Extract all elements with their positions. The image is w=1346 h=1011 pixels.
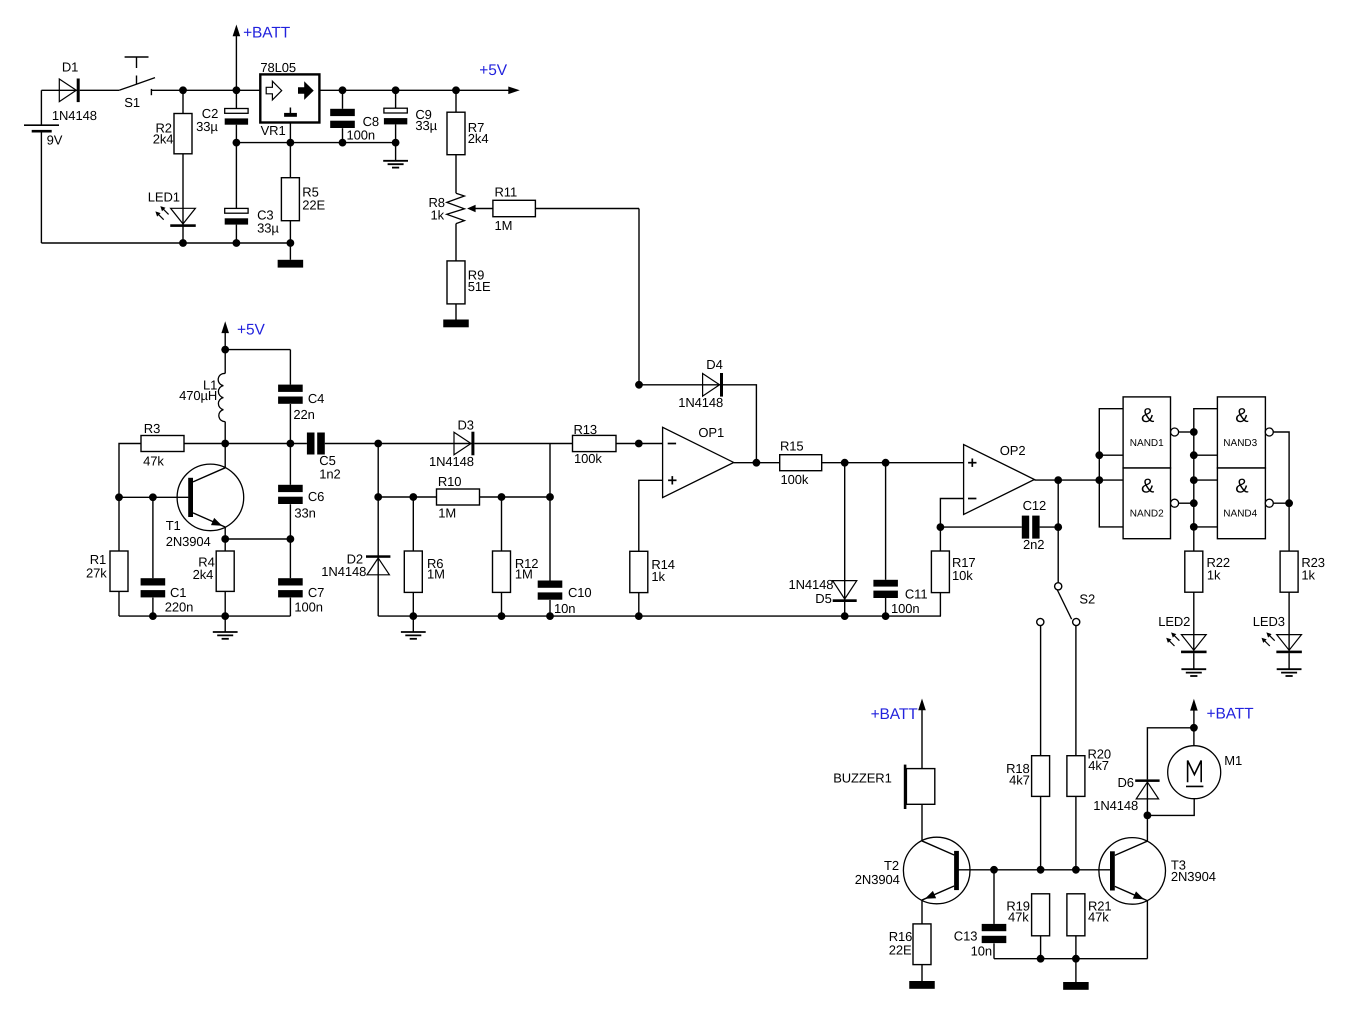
svg-text:R11: R11 — [495, 185, 518, 200]
svg-text:C12: C12 — [1023, 498, 1047, 513]
wire VR1 ground pin — [289, 123, 291, 143]
wire R14 to rail — [638, 593, 640, 617]
svg-text:D3: D3 — [458, 418, 474, 433]
svg-text:C4: C4 — [308, 391, 324, 406]
svg-text:47k: 47k — [1088, 910, 1109, 925]
wire NAND34 input column — [1194, 409, 1218, 551]
node junction C4-C6 — [287, 440, 295, 448]
node junction T1 emitter — [221, 535, 229, 543]
wire R20 to base row — [1075, 796, 1077, 869]
node junction C6-C7 — [287, 535, 295, 543]
svg-text:47k: 47k — [1008, 910, 1029, 925]
NAND gate NAND3 — [1217, 397, 1273, 468]
wire battery positive to D1 anode — [41, 89, 77, 91]
resistor R5 22E — [281, 178, 325, 221]
switch S2 — [1037, 583, 1095, 626]
svg-text:10n: 10n — [971, 943, 992, 958]
node junction R6-rail — [409, 612, 417, 620]
node junction R14-rail — [635, 612, 643, 620]
diode D4 — [678, 357, 723, 410]
resistor R20 4k7 — [1067, 747, 1111, 797]
wire R12 to rail — [501, 592, 503, 616]
wire D4 cathode to output — [723, 385, 756, 463]
svg-text:470µH: 470µH — [179, 388, 217, 403]
svg-text:S1: S1 — [124, 95, 140, 110]
wire R5 to ground rail — [289, 221, 291, 260]
node junction C12-S2 — [1054, 523, 1062, 531]
node junction C10 row — [546, 493, 554, 501]
resistor R1 27k — [86, 551, 128, 591]
diode D6 — [1093, 775, 1159, 813]
node junction VR1-gnd — [287, 139, 295, 147]
svg-text:OP2: OP2 — [1000, 443, 1026, 458]
capacitor C7 100n — [278, 578, 324, 614]
node junction C11-rail — [882, 612, 890, 620]
node junction C9 top — [392, 86, 400, 94]
svg-text:+5V: +5V — [479, 62, 507, 79]
svg-text:2N3904: 2N3904 — [855, 872, 900, 887]
wire LED1 cathode to ground rail — [182, 227, 184, 243]
svg-text:C6: C6 — [308, 489, 324, 504]
wire LED3 to earth — [1288, 653, 1290, 669]
svg-text:22n: 22n — [293, 407, 314, 422]
svg-text:4k7: 4k7 — [1088, 758, 1109, 773]
node junction mid-455 — [1190, 451, 1198, 459]
svg-text:78L05: 78L05 — [260, 60, 296, 75]
wire NAND4 output — [1273, 502, 1289, 504]
resistor R15 100k — [780, 439, 822, 487]
wire T1 emitter to row — [224, 527, 226, 539]
node junction D5-rail — [841, 612, 849, 620]
svg-text:1M: 1M — [515, 567, 533, 582]
svg-text:10k: 10k — [952, 568, 973, 583]
inductor L1 470uH — [179, 373, 225, 421]
ground earth under C9 — [383, 161, 408, 168]
svg-text:C13: C13 — [954, 929, 978, 944]
power symbol +BATT motor — [1190, 699, 1254, 746]
node junction +BATT motor — [1190, 724, 1198, 732]
wire R7 top lead — [455, 90, 457, 112]
ground rail bottom left — [41, 242, 290, 244]
wire NAND2 input 1 — [1099, 479, 1123, 481]
wire R11 to OP1 minus node — [535, 209, 639, 385]
svg-text:+5V: +5V — [237, 322, 265, 339]
wire D6 anode lead — [1146, 779, 1148, 815]
power symbol +BATT buzzer — [871, 699, 926, 769]
NAND gate NAND1 — [1123, 397, 1179, 468]
ground bar under R5 — [278, 260, 304, 268]
resistor R13 100k — [573, 422, 617, 466]
battery B1 9V — [24, 90, 63, 243]
wire NAND4 input 2 — [1194, 526, 1218, 528]
svg-text:51E: 51E — [468, 279, 491, 294]
wire R19 to rail — [1040, 936, 1042, 959]
ground earth under R4 — [213, 632, 238, 639]
node junction C10-rail — [546, 612, 554, 620]
wire R16 to ground bar — [921, 965, 923, 981]
wire M1 bottom to D6 node — [1147, 799, 1194, 816]
wire R23 to LED3 — [1288, 592, 1290, 653]
resistor R22 1k — [1185, 551, 1230, 592]
node junction R4-rail — [221, 612, 229, 620]
svg-text:1M: 1M — [427, 567, 445, 582]
wire C11 column — [885, 463, 887, 580]
wire R17 node to C12 — [940, 526, 1021, 528]
wire S2 right contact to R20 — [1075, 626, 1077, 756]
capacitor C2 33u — [196, 106, 248, 134]
ground rail oscillator — [119, 615, 290, 617]
node junction R5-rail — [287, 239, 295, 247]
svg-text:+BATT: +BATT — [243, 24, 291, 41]
ground rail bottom — [994, 958, 1147, 960]
wire L1 to collector node — [224, 422, 226, 444]
wire C1 bottom lead — [152, 598, 154, 617]
node junction mid-503 — [1190, 499, 1198, 507]
svg-text:33n: 33n — [294, 505, 315, 520]
wire rail to earth R6 — [412, 616, 414, 632]
svg-text:M1: M1 — [1224, 753, 1242, 768]
op-amp OP1 — [663, 425, 734, 498]
wire NAND4 input 1 — [1194, 479, 1218, 481]
node junction R12 top — [498, 493, 506, 501]
wire R8 to R9 — [455, 224, 457, 261]
wire C10 column — [549, 444, 551, 581]
wire C8 bottom lead — [342, 128, 344, 142]
svg-text:2N3904: 2N3904 — [1171, 869, 1216, 884]
svg-text:100k: 100k — [574, 451, 602, 466]
diode D3 — [429, 418, 474, 470]
wire C10 bottom lead — [549, 600, 551, 616]
capacitor C11 100n — [873, 580, 927, 616]
svg-text:33µ: 33µ — [415, 118, 437, 133]
svg-text:2N3904: 2N3904 — [166, 534, 211, 549]
buzzer BUZZER1 — [833, 765, 935, 809]
node junction C8 top — [339, 86, 347, 94]
node junction R21-rail — [1072, 955, 1080, 963]
wire C13 top lead — [993, 870, 995, 924]
wire +5V to C4 branch — [225, 349, 290, 351]
svg-text:R3: R3 — [144, 421, 160, 436]
voltage regulator VR1 78L05 — [260, 60, 319, 138]
svg-text:100n: 100n — [347, 128, 376, 143]
node junction D5 top — [841, 459, 849, 467]
node junction D4 anode — [635, 381, 643, 389]
node junction NAND1 in2 — [1095, 451, 1103, 459]
wire R6 top lead — [412, 497, 414, 551]
svg-text:R15: R15 — [780, 439, 804, 454]
resistor R10 1M — [437, 474, 480, 520]
resistor R21 47k — [1067, 894, 1112, 936]
svg-text:1N4148: 1N4148 — [1093, 798, 1138, 813]
resistor R17 10k — [931, 551, 975, 593]
wire collector node to T1 — [224, 444, 226, 468]
node junction R6 top — [409, 493, 417, 501]
wire C4 top lead — [289, 350, 291, 385]
svg-text:LED3: LED3 — [1253, 614, 1285, 629]
wire emitter row — [225, 538, 290, 540]
node junction NAND34 out — [1285, 499, 1293, 507]
wire buzzer to T2 collector — [921, 804, 923, 841]
wire C6 top lead — [289, 444, 291, 485]
capacitor C9 33u — [384, 107, 438, 133]
svg-text:1M: 1M — [495, 218, 513, 233]
node junction output-S2col — [1054, 476, 1062, 484]
wire R13 to OP1 minus — [616, 443, 663, 445]
node junction LED1-rail — [179, 239, 187, 247]
ground bar under R16 — [909, 981, 935, 989]
wire R1 to rail — [118, 591, 120, 616]
wire D6 cathode up — [1147, 728, 1194, 780]
svg-text:D5: D5 — [815, 591, 831, 606]
svg-text:C7: C7 — [308, 585, 324, 600]
power symbol +5V oscillator — [221, 321, 265, 349]
node junction R12-rail — [498, 612, 506, 620]
resistor R18 4k7 — [1006, 756, 1050, 797]
svg-text:C11: C11 — [905, 586, 928, 601]
svg-text:1k: 1k — [651, 569, 665, 584]
svg-text:2k4: 2k4 — [468, 131, 489, 146]
svg-text:NAND1: NAND1 — [1130, 438, 1164, 449]
svg-text:2k4: 2k4 — [193, 567, 214, 582]
node junction L1 top — [221, 346, 229, 354]
svg-text:NAND2: NAND2 — [1130, 508, 1164, 519]
wire R18 to base row — [1040, 796, 1042, 869]
node junction mid-480 — [1190, 476, 1198, 484]
svg-text:LED1: LED1 — [148, 189, 180, 204]
svg-text:T2: T2 — [884, 858, 899, 873]
wire D1 cathode to S1 — [80, 89, 120, 91]
svg-text:1N4148: 1N4148 — [429, 454, 474, 469]
svg-text:NAND4: NAND4 — [1223, 508, 1257, 519]
resistor R11 1M — [493, 185, 536, 234]
NAND gate NAND4 — [1217, 468, 1273, 539]
svg-text:D6: D6 — [1118, 775, 1134, 790]
resistor R19 47k — [1006, 894, 1049, 936]
node junction C1-rail — [149, 612, 157, 620]
node junction C2-gnd — [233, 139, 241, 147]
wire R12 top lead — [501, 497, 503, 551]
svg-text:LED2: LED2 — [1158, 614, 1190, 629]
LED LED3 — [1253, 614, 1302, 653]
wire R3 left to base column — [119, 444, 141, 552]
capacitor C8 100n — [330, 109, 379, 143]
node junction R20-R21 — [1072, 866, 1080, 874]
ground earth under LED2 — [1181, 669, 1206, 676]
resistor R4 2k4 — [193, 551, 235, 591]
wire R7 to R8 — [455, 155, 457, 194]
svg-text:22E: 22E — [302, 197, 325, 212]
node junction mid-432 — [1190, 428, 1198, 436]
svg-text:1k: 1k — [1207, 568, 1221, 583]
capacitor C5 1n2 — [307, 433, 341, 482]
svg-text:C1: C1 — [170, 585, 186, 600]
wire S1 to VR1 input — [151, 89, 260, 91]
wire row2 right — [480, 496, 551, 498]
resistor R16 22E — [889, 924, 931, 965]
svg-text:100k: 100k — [781, 472, 809, 487]
wire C6 bottom lead — [289, 504, 291, 539]
wire C3 top lead — [235, 143, 237, 209]
resistor R9 51E — [447, 261, 491, 304]
node junction R2 top — [179, 86, 187, 94]
capacitor C3 33u — [225, 208, 280, 236]
svg-text:+BATT: +BATT — [1207, 706, 1255, 723]
wire C1 top lead — [152, 497, 154, 578]
wire R5 top lead — [289, 143, 291, 178]
wire T3 emitter to rail — [1146, 901, 1148, 959]
wire C2 bottom lead — [235, 125, 237, 143]
wire base row — [119, 496, 188, 498]
svg-text:1k: 1k — [431, 207, 445, 222]
svg-text:1N4148: 1N4148 — [678, 395, 723, 410]
capacitor C6 33n — [278, 485, 324, 521]
ground earth under LED3 — [1277, 669, 1302, 676]
svg-text:&: & — [1141, 476, 1155, 498]
svg-text:100n: 100n — [891, 601, 920, 616]
node junction C8-gnd — [339, 139, 347, 147]
wire OP1 plus lead — [639, 480, 663, 551]
wire D2 column — [377, 444, 379, 575]
svg-text:1N4148: 1N4148 — [52, 108, 97, 123]
svg-text:4k7: 4k7 — [1009, 772, 1030, 787]
wire D5 column — [844, 463, 846, 602]
resistor R3 47k — [141, 421, 184, 468]
wire C4 bottom lead — [289, 404, 291, 444]
wire row2 left — [378, 496, 436, 498]
ground bar under R9 — [443, 320, 469, 328]
node junction +BATT/C2 — [233, 86, 241, 94]
wire NAND1 input 2 — [1099, 454, 1123, 456]
wire R2 to LED1 — [182, 154, 184, 227]
motor M1 — [1168, 746, 1242, 799]
wire L1 top lead — [224, 350, 226, 374]
node junction OP1 minus — [635, 440, 643, 448]
wire C8 top lead — [342, 90, 344, 109]
wire base row T2-T3 — [958, 869, 1110, 871]
node junction C9-gnd — [392, 139, 400, 147]
op-amp OP2 — [964, 443, 1035, 515]
svg-text:33µ: 33µ — [257, 220, 279, 235]
wire C9 to earth — [395, 124, 397, 160]
wire NAND3 input 2 — [1194, 454, 1218, 456]
node junction R17 top — [937, 523, 945, 531]
wire C5 to D3 — [325, 443, 473, 445]
wire R15 to OP2 plus — [822, 462, 964, 464]
resistor R2 2k4 — [153, 114, 192, 154]
wire S2 left contact to R18 — [1040, 626, 1042, 756]
node junction T1 collector — [221, 440, 229, 448]
capacitor C12 2n2 — [1022, 498, 1046, 552]
node junction D2 top — [374, 440, 382, 448]
wire NAND1 output — [1179, 431, 1194, 433]
wire OP2 output — [1034, 479, 1099, 481]
diode D5 — [789, 577, 857, 606]
wire C11 bottom lead — [885, 598, 887, 616]
resistor R6 1M — [404, 551, 445, 592]
capacitor C4 22n — [278, 385, 324, 422]
svg-text:27k: 27k — [86, 566, 107, 581]
node junction D6 anode — [1144, 812, 1152, 820]
ground bar bottom — [1063, 982, 1089, 990]
wire C3 bottom lead — [235, 225, 237, 243]
power symbol +BATT top — [233, 24, 291, 90]
svg-text:S2: S2 — [1079, 592, 1095, 607]
node junction D2 row2 — [374, 493, 382, 501]
node junction R7 top — [452, 86, 460, 94]
svg-text:NAND3: NAND3 — [1223, 438, 1257, 449]
svg-text:1N4148: 1N4148 — [321, 564, 366, 579]
wire R21 to rail — [1075, 936, 1077, 959]
svg-text:VR1: VR1 — [261, 123, 286, 138]
wire NAND12 input column — [1099, 409, 1123, 527]
resistor R7 2k4 — [447, 112, 488, 155]
node junction OP1 output — [753, 459, 761, 467]
node junction C1 top — [149, 493, 157, 501]
wire NAND3 output — [1273, 432, 1289, 551]
transistor T2 2N3904 — [855, 837, 970, 904]
svg-text:1k: 1k — [1301, 568, 1315, 583]
wire C12 to S2 column — [1040, 526, 1059, 528]
node junction C13 top — [990, 866, 998, 874]
svg-text:220n: 220n — [165, 600, 194, 615]
wire R6 to rail — [412, 592, 414, 616]
wire C9 top lead — [395, 90, 397, 108]
svg-text:2n2: 2n2 — [1023, 537, 1044, 552]
wire NAND2 output — [1179, 502, 1194, 504]
resistor R23 1k — [1280, 551, 1325, 592]
ground earth under R6 — [401, 632, 426, 639]
wire D4 anode row — [639, 384, 722, 386]
svg-text:9V: 9V — [47, 133, 63, 148]
wire R9 to ground bar — [455, 304, 457, 320]
wire R4 top lead — [224, 539, 226, 551]
wire D2 anode to rail — [377, 575, 379, 616]
svg-text:D4: D4 — [706, 357, 722, 372]
transistor T3 2N3904 — [1099, 838, 1216, 905]
node junction mid-527 — [1190, 523, 1198, 531]
svg-text:1M: 1M — [438, 505, 456, 520]
wire oscillator output row — [184, 443, 307, 445]
wire R22 to LED2 — [1193, 592, 1195, 653]
resistor R14 1k — [630, 551, 675, 592]
wire C2 top lead — [235, 90, 237, 108]
wire rail to ground bar — [1075, 959, 1077, 982]
wire VR1 output to +5V — [319, 89, 512, 91]
potentiometer R8 1k — [429, 193, 493, 223]
node junction R19-rail — [1037, 955, 1045, 963]
node junction R1 top / base row — [115, 493, 123, 501]
svg-text:&: & — [1235, 405, 1249, 427]
diode D2 — [321, 551, 390, 579]
node junction C11 top — [882, 459, 890, 467]
wire R4 to rail — [224, 591, 226, 616]
wire D3 to R13 — [474, 443, 572, 445]
svg-text:2k4: 2k4 — [153, 131, 174, 146]
svg-text:10n: 10n — [554, 601, 575, 616]
node junction C3-rail — [233, 239, 241, 247]
svg-text:D1: D1 — [62, 60, 78, 75]
wire T2 emitter to R16 — [921, 900, 923, 924]
svg-text:1n2: 1n2 — [319, 466, 340, 481]
capacitor C13 10n — [954, 924, 1007, 959]
wire D5 to rail — [844, 602, 846, 617]
LED LED2 — [1158, 614, 1206, 653]
svg-text:47k: 47k — [143, 453, 164, 468]
svg-text:&: & — [1235, 476, 1249, 498]
power symbol +5V right arrow — [479, 62, 520, 94]
svg-text:OP1: OP1 — [698, 425, 724, 440]
wire R17 to rail — [939, 593, 941, 617]
